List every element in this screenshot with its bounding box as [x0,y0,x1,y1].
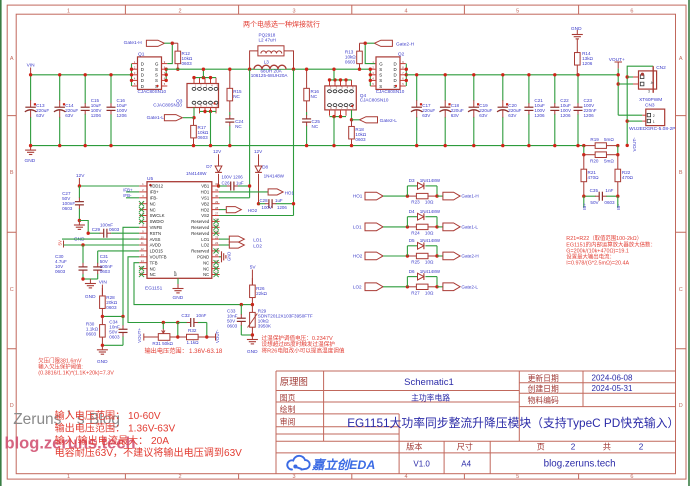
wire VOUTFB to divider [163,322,178,324]
svg-text:LO1: LO1 [201,237,210,242]
svg-text:100V: 100V [262,205,272,210]
svg-text:L3: L3 [264,59,270,64]
svg-text:Gate1-L: Gate1-L [461,225,478,230]
svg-text:NC: NC [150,201,156,206]
ground below R30 [101,345,103,350]
svg-text:AVDD: AVDD [150,243,161,248]
svg-text:1206: 1206 [582,61,593,66]
svg-text:22kΩ: 22kΩ [256,291,267,296]
svg-text:HO1: HO1 [201,190,210,195]
U5 NC pin x-marks [139,201,144,206]
resistor R15 NC [229,69,231,88]
svg-text:输入电压范围： 10-60V: 输入电压范围： 10-60V [55,409,161,422]
svg-text:共: 共 [603,443,611,452]
wire VOUTFB down [128,257,163,323]
svg-text:TFB: TFB [150,260,158,265]
svg-text:0603: 0603 [55,269,66,274]
wire LDO15 [98,250,140,252]
resistor R14 13k [576,39,578,52]
svg-text:EG1151大功率同步整流升降压模块（支持TypeC PD快: EG1151大功率同步整流升降压模块（支持TypeC PD快充输入） [347,416,679,430]
svg-text:NC: NC [311,94,318,99]
svg-text:IFB+: IFB+ [150,190,160,195]
net flag LO2 [219,244,229,246]
svg-text:23: 23 [215,235,219,239]
svg-text:R23: R23 [411,200,420,205]
svg-text:S: S [379,73,382,78]
wire VOUT+ vertical to connectors [617,69,619,116]
svg-text:NC: NC [235,124,242,129]
svg-text:NC: NC [312,124,319,129]
thermistor R29 NTC 10k [251,305,253,313]
svg-text:1206: 1206 [117,113,128,118]
wire VOUT- vertical to connectors [627,66,653,145]
resistor R24 10 [407,226,416,228]
svg-text:D: D [394,78,397,83]
svg-text:0603: 0603 [227,323,238,328]
svg-text:GND: GND [25,158,36,164]
svg-text:1: 1 [653,120,655,124]
svg-text:U5: U5 [147,176,153,182]
svg-text:2: 2 [639,443,644,452]
wire C30 C31 gnd join [83,278,98,280]
capacitor C30 4.7uF [82,245,84,258]
svg-text:创建日期: 创建日期 [528,384,559,394]
capacitor C20 [502,75,504,101]
svg-text:原理图: 原理图 [280,376,308,387]
svg-text:将R26电阻改小可以提高温度调值: 将R26电阻改小可以提高温度调值 [262,346,345,354]
diode D7 1N4148W [215,166,222,172]
op-amp U5 EG1151 controller [147,182,212,279]
wire Q2 drain column to VOUT rail [405,64,407,86]
inductor L3 68uH 20A [255,64,286,68]
svg-text:CJAC80SN10: CJAC80SN10 [138,89,167,94]
net flag Gate2-L driver row [437,286,443,288]
svg-text:WU2EDGRC-5.08-2P: WU2EDGRC-5.08-2P [629,126,675,132]
svg-text:XT60PWM: XT60PWM [639,97,662,103]
svg-text:A4: A4 [461,459,471,468]
svg-text:27: 27 [215,212,219,216]
svg-text:NC: NC [150,266,156,271]
net flag Gate1-H driver row [437,195,443,197]
svg-text:RSTN: RSTN [150,231,161,236]
svg-text:12V: 12V [76,173,85,179]
svg-text:AVSS: AVSS [150,237,161,242]
svg-text:物料编码: 物料编码 [528,395,559,405]
svg-text:0603: 0603 [198,135,209,140]
net flag Gate2-H driver row [437,255,443,257]
svg-text:22: 22 [215,241,219,245]
svg-text:GND: GND [97,359,108,365]
wire Q1 source column to SW1 [165,69,167,80]
svg-text:12V: 12V [213,149,222,154]
wire L2 left lead [250,51,258,69]
capacitor C31 100nF [97,251,99,258]
svg-text:C: C [10,287,14,293]
svg-text:2024-06-08: 2024-06-08 [592,374,633,383]
svg-text:VS2: VS2 [201,213,210,218]
diode D6 1N4148W [406,277,408,287]
svg-text:0603: 0603 [109,335,120,340]
resistor R28 20k [101,288,103,296]
svg-text:VINFB: VINFB [150,225,163,230]
resistor R16 NC [306,69,308,88]
svg-text:Q1: Q1 [138,52,145,58]
svg-text:IB+: IB+ [582,203,587,210]
capacitor C26 1uF bootstrap [217,184,220,187]
wire Q4 gate down [351,110,353,120]
svg-text:0603: 0603 [106,305,117,310]
svg-text:输入/输出电流最大： 20A: 输入/输出电流最大： 20A [55,434,170,447]
svg-text:10Ω: 10Ω [425,231,434,236]
svg-text:D: D [141,78,144,83]
wire Q4 drain row [330,79,352,81]
resistor R25 10 [407,255,416,257]
svg-text:GND: GND [227,252,232,261]
net flag HO2 [219,209,226,211]
svg-text:I=0.978/(G*2.5mΩ)=20.4A: I=0.978/(G*2.5mΩ)=20.4A [566,261,629,267]
svg-text:D3: D3 [409,178,415,183]
wire Q1 gate up [167,43,172,63]
wire VS2 vertical [293,69,295,215]
svg-text:设置最大输出电流：: 设置最大输出电流： [566,253,615,261]
svg-text:R19: R19 [590,137,599,142]
svg-text:D: D [141,67,144,72]
svg-text:2: 2 [178,8,181,14]
svg-text:3: 3 [292,474,295,480]
svg-text:HO1: HO1 [285,190,295,195]
svg-text:D: D [394,67,397,72]
svg-text:R20: R20 [590,159,599,164]
transistor Q4 CJAC80SN10 low-side [325,86,357,110]
svg-text:S: S [155,67,158,72]
svg-text:VOUTFB: VOUTFB [150,255,167,260]
svg-text:Gate1-L: Gate1-L [147,115,165,121]
svg-text:G=200k/(10k+470Ω)=19.1: G=200k/(10k+470Ω)=19.1 [566,248,629,254]
svg-text:5: 5 [516,8,519,14]
transistor Q1 CJAC80SN10 high-side [138,57,162,90]
svg-text:IFB-: IFB- [123,193,132,198]
svg-text:6: 6 [630,8,633,14]
wire LO1 to node [383,226,407,228]
svg-text:VDD12: VDD12 [150,184,164,189]
svg-text:C26: C26 [222,180,231,185]
svg-text:G: G [379,61,383,66]
svg-text:NC: NC [150,272,156,277]
svg-text:A: A [10,56,14,62]
svg-text:0603: 0603 [345,60,356,65]
svg-text:LO1: LO1 [253,237,262,242]
transistor Q3 CJAC80SN10 low-side [187,84,219,108]
svg-text:50V: 50V [590,200,599,205]
wire IB- stub [617,196,619,207]
resistor R12 10k [172,42,178,44]
ground PGND rotated [219,256,221,258]
net label IFB- wire [126,197,139,199]
svg-text:主功率电路: 主功率电路 [411,393,450,403]
wire Q4 drain feed [333,69,335,80]
svg-text:CJAC80SN10: CJAC80SN10 [153,102,182,107]
svg-text:D: D [141,61,144,66]
svg-text:3: 3 [648,90,650,94]
svg-text:4: 4 [404,474,407,480]
svg-text:D: D [10,403,14,409]
svg-text:C32: C32 [181,313,190,318]
svg-text:31: 31 [215,188,219,192]
svg-text:EG1151的内部运算放大器放大倍数：: EG1151的内部运算放大器放大倍数： [566,240,655,248]
svg-text:D8: D8 [262,165,268,170]
resistor R26 22k [251,278,253,285]
svg-text:1uF: 1uF [236,180,244,185]
svg-text:HO1: HO1 [353,194,363,199]
svg-text:D6: D6 [409,269,415,274]
capacitor C25 NC [306,112,308,115]
wire Q4 source to GND rail [333,117,335,146]
svg-text:0603: 0603 [355,137,366,142]
wire L2 right lead [284,51,294,69]
svg-text:1: 1 [67,8,70,14]
svg-text:470Ω: 470Ω [622,175,634,180]
capacitor C19 [473,75,475,101]
svg-text:29: 29 [215,200,219,204]
svg-text:2: 2 [178,474,181,480]
diode D4 1N4148W [406,217,408,227]
svg-text:106125-68UH20A: 106125-68UH20A [251,73,289,78]
capacitor C13 [30,75,32,101]
svg-text:0603: 0603 [86,331,97,336]
resistor R30 1.1k [101,316,103,324]
svg-text:R31 50kΩ: R31 50kΩ [152,341,173,346]
svg-text:GND: GND [571,26,582,32]
svg-text:S: S [379,67,382,72]
svg-text:R24: R24 [411,231,420,236]
svg-text:B: B [10,170,14,176]
svg-text:VS1: VS1 [201,196,210,201]
wire AVSS [62,238,139,240]
svg-text:欠压门限381.6mV: 欠压门限381.6mV [38,357,82,365]
svg-text:NC: NC [150,207,156,212]
svg-text:B: B [679,170,683,176]
wire Q3 source to GND rail [210,111,212,145]
ground GND input [30,146,32,151]
svg-text:3950K: 3950K [258,323,272,328]
svg-text:1N4148W: 1N4148W [264,174,285,179]
resistor R13 10k [360,42,366,44]
capacitor C29 100nF RSTN [79,221,88,234]
svg-text:VB2: VB2 [201,201,210,206]
svg-text:1.1kΩ: 1.1kΩ [187,340,200,345]
svg-text:LDO15: LDO15 [150,249,164,254]
svg-text:CN2: CN2 [656,65,666,71]
svg-text:10Ω: 10Ω [425,290,434,295]
wire LO2 to node [383,286,407,288]
svg-text:Gate2-L: Gate2-L [380,118,398,124]
svg-text:NC: NC [203,266,209,271]
svg-text:两个电感选一种焊接就行: 两个电感选一种焊接就行 [243,20,320,29]
svg-text:VIN: VIN [99,280,108,286]
svg-text:1N4148W: 1N4148W [420,209,441,214]
svg-text:EP: EP [174,270,178,276]
svg-text:1206: 1206 [560,113,571,118]
svg-text:电容耐压63V，不建议将输出电压调到63V: 电容耐压63V，不建议将输出电压调到63V [55,446,243,459]
svg-text:D: D [394,73,397,78]
resistor R23 10 [407,195,416,197]
svg-text:LO1: LO1 [353,225,362,230]
svg-text:12: 12 [141,247,145,251]
svg-text:输入欠压保护阈值:: 输入欠压保护阈值: [38,363,83,371]
diode D5 1N4148W [406,246,408,256]
svg-text:D: D [394,61,397,66]
svg-text:1N4148W: 1N4148W [420,269,441,274]
svg-text:设想超过85度时触发过温保护: 设想超过85度时触发过温保护 [262,340,336,348]
svg-text:LO2: LO2 [201,243,210,248]
svg-text:1206: 1206 [584,113,595,118]
wire VIN bus [31,74,132,76]
svg-text:版本: 版本 [406,442,422,452]
svg-text:D: D [141,84,144,89]
svg-text:1.36V-63.18: 1.36V-63.18 [189,348,223,355]
wire R26 bottom junction [241,304,252,306]
capacitor C33 10nF [240,305,242,315]
svg-text:Reserved: Reserved [191,231,210,236]
wire VOUT+ rail [406,74,618,76]
svg-text:1uF: 1uF [275,198,283,203]
svg-text:0603: 0603 [182,61,193,66]
svg-text:63V: 63V [36,113,45,118]
svg-text:5: 5 [516,474,519,480]
svg-text:5mΩ: 5mΩ [604,159,614,164]
svg-text:SWCLK: SWCLK [150,213,165,218]
ground GND above R14 [576,30,578,35]
resistor R22 470 [617,155,619,170]
svg-text:2: 2 [571,443,576,452]
svg-text:0603: 0603 [604,200,615,205]
svg-text:1: 1 [67,474,70,480]
svg-text:1N4148W: 1N4148W [186,171,207,176]
wire IB+ stub [583,196,585,207]
JLC EDA logo [287,456,309,470]
ground below C27 [78,221,80,226]
diode D3 1N4148W [406,186,408,196]
capacitor C23 [577,75,579,104]
wire SW1 node [166,68,370,70]
svg-text:Gate1-H: Gate1-H [124,40,143,46]
svg-text:63V: 63V [422,113,431,118]
svg-text:L2 47uH: L2 47uH [259,38,276,43]
svg-text:C35: C35 [590,188,599,193]
capacitor C16 [110,75,112,104]
svg-text:VB1: VB1 [201,184,210,189]
capacitor C15 [84,75,86,104]
svg-text:C28: C28 [260,198,269,203]
svg-text:30: 30 [215,194,219,198]
capacitor C34 10nF [122,316,124,325]
svg-text:1N4148W: 1N4148W [420,238,441,243]
net flag Gate2-L [360,117,378,123]
ground below C30 C31 [89,279,91,284]
wire Q3 source row [200,110,217,112]
wire VINFB down [123,227,139,316]
svg-text:CJAC80SN10: CJAC80SN10 [360,97,389,102]
svg-text:尺寸: 尺寸 [457,442,473,452]
wire U5 exposed pad to ground [177,278,179,284]
svg-text:输出电压范围：: 输出电压范围： [145,347,188,355]
svg-text:PGND: PGND [197,255,209,260]
svg-text:输出电压范围： 1.36V-63V: 输出电压范围： 1.36V-63V [55,421,176,434]
svg-text:G: G [155,61,159,66]
capacitor C17 [416,75,418,101]
svg-text:VOUT-: VOUT- [632,137,637,152]
svg-text:EG1151: EG1151 [145,285,163,291]
net flag HO1 [219,191,268,193]
wire Q3 gate down [193,108,195,118]
svg-text:Gate2-L: Gate2-L [461,284,478,289]
svg-text:Gate2-H: Gate2-H [461,254,478,259]
svg-text:CN3: CN3 [645,103,655,109]
svg-text:11: 11 [141,241,144,245]
svg-text:NC: NC [203,260,209,265]
wire Q1 drain column [131,64,133,86]
svg-text:R21=R22（取值范围100-2kΩ）: R21=R22（取值范围100-2kΩ） [566,234,642,242]
svg-text:NC: NC [203,272,209,277]
capacitor C21 [528,75,530,104]
svg-text:VOUT-: VOUT- [215,329,220,343]
svg-text:2024-05-31: 2024-05-31 [592,384,633,393]
wire thermistor gnd join [241,334,252,336]
svg-text:100V 1206: 100V 1206 [222,175,244,180]
wire R32 right junction [206,323,208,338]
title block table [276,371,676,474]
capacitor C18 [444,75,446,101]
svg-text:0603: 0603 [100,269,111,274]
diode D8 1N4148W [255,166,262,172]
svg-text:LO2: LO2 [253,243,262,248]
svg-text:10Ω: 10Ω [425,260,434,265]
svg-text:D: D [141,73,144,78]
svg-text:Reserved: Reserved [191,219,210,224]
svg-text:S: S [379,84,382,89]
svg-text:1N4148W: 1N4148W [420,178,441,183]
svg-text:IFB+: IFB+ [123,187,133,192]
svg-text:20: 20 [215,253,219,257]
svg-text:Reserved: Reserved [191,225,210,230]
svg-text:4: 4 [404,8,407,14]
svg-text:6: 6 [630,474,633,480]
sheet frame [0,0,2,486]
wire VDD12 [79,185,139,187]
wire C34 bottom join [102,344,123,346]
net flag Gate1-L driver row [437,226,443,228]
svg-text:5V: 5V [250,265,257,271]
svg-text:NC: NC [233,94,240,99]
svg-text:10nF: 10nF [196,313,207,318]
svg-text:S: S [155,73,158,78]
svg-text:V1.0: V1.0 [413,459,430,468]
resistor R18 10k [351,120,353,127]
svg-text:63V: 63V [451,113,460,118]
ground below R29 [251,335,253,340]
wire GND rail [31,145,584,147]
ground U5 EP GND [177,284,179,289]
wire TFB down [134,263,241,305]
svg-text:12V: 12V [254,149,263,154]
svg-text:GND: GND [247,349,258,355]
svg-text:63V: 63V [65,113,74,118]
svg-text:5V: 5V [58,240,63,245]
svg-text:CJAC80SN10: CJAC80SN10 [376,89,405,94]
svg-text:图页: 图页 [280,394,296,403]
svg-text:HO2: HO2 [201,207,210,212]
svg-text:绘制: 绘制 [280,404,296,414]
